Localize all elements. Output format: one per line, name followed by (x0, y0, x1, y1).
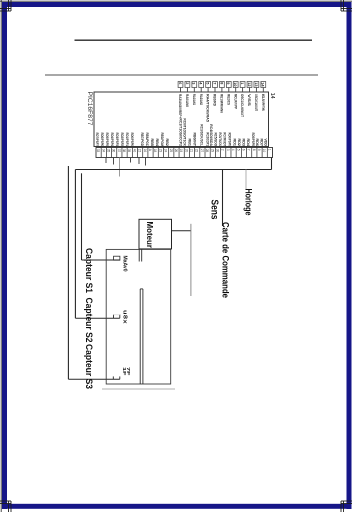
svg-text:RD7/PSP7: RD7/PSP7 (95, 133, 99, 147)
svg-text:10: 10 (262, 149, 266, 153)
motor box (139, 219, 172, 249)
svg-text:12: 12 (247, 82, 251, 86)
svg-text:Moteur: Moteur (145, 222, 155, 249)
svg-text:18: 18 (153, 149, 157, 153)
svg-text:40: 40 (132, 149, 136, 153)
svg-text:26: 26 (174, 149, 178, 153)
svg-text:22: 22 (195, 149, 199, 153)
svg-text:RD4: RD4 (246, 139, 250, 147)
svg-text:RC7/RX/DT: RC7/RX/DT (223, 133, 227, 147)
microcontroller U1 body (94, 92, 269, 147)
svg-text:1: 1 (240, 82, 244, 84)
wire S3 horizontal (68, 378, 119, 380)
top pin 2 (RA0/AN0) (185, 82, 190, 108)
sensor S2 input box (open) (113, 315, 115, 319)
header rule black (75, 39, 313, 41)
svg-text:27: 27 (200, 149, 204, 153)
top pin 7 (RE0/RD) (212, 82, 217, 107)
svg-text:23: 23 (158, 149, 162, 153)
header rule gray (45, 74, 318, 76)
top pin 1 (OSC1/CLKIN/XT) (240, 82, 245, 118)
svg-text:7: 7 (212, 82, 216, 84)
svg-text:RD3: RD3 (242, 139, 246, 147)
sensor S1 input box (114, 256, 120, 260)
top pin 8 (RE1/WR/AN6) (219, 82, 224, 114)
svg-text:36: 36 (112, 149, 116, 153)
corner mark bottom-left (8, 501, 10, 512)
corner mark top-right (340, 0, 342, 11)
pin stub wire (gray) (119, 158, 121, 177)
svg-text:PIC16F877: PIC16F877 (86, 92, 93, 127)
svg-text:RD5/PSP5: RD5/PSP5 (105, 133, 109, 147)
thin black outer frame top (0, 0, 352, 2)
svg-text:Sens: Sens (209, 200, 220, 220)
wire S3 vertical (67, 166, 69, 379)
pin stub wire (130, 158, 132, 163)
wire motor to bracket (172, 230, 191, 232)
svg-text:RA1/AN1: RA1/AN1 (192, 94, 196, 105)
svg-text:24: 24 (164, 149, 168, 153)
svg-text:RC4/SDI/SDA: RC4/SDI/SDA (209, 124, 213, 146)
motor shaft double line upper (138, 249, 140, 261)
svg-text:RC3/SCK/SCL: RC3/SCK/SCL (200, 124, 204, 146)
svg-text:19: 19 (179, 149, 183, 153)
blue border top (2, 2, 350, 7)
svg-text:33: 33 (96, 149, 100, 153)
svg-text:29: 29 (210, 149, 214, 153)
svg-text:25: 25 (169, 149, 173, 153)
svg-text:RD6/PSP6: RD6/PSP6 (100, 133, 104, 147)
svg-text:RD7: RD7 (260, 139, 264, 147)
svg-text:RA3/AN3/VREF+: RA3/AN3/VREF+ (178, 94, 182, 118)
bracket line right of motor (190, 224, 192, 296)
wire S1 horizontal (82, 259, 120, 261)
top pin 3 (RA1/AN1) (192, 82, 197, 106)
svg-text:VSS: VSS (247, 94, 251, 107)
svg-text:RD4/PSP4: RD4/PSP4 (110, 133, 114, 147)
svg-text:RB0/INT: RB0/INT (193, 133, 197, 147)
svg-text:RC6/TX/CK: RC6/TX/CK (218, 133, 222, 147)
wire Sens (222, 170, 224, 227)
svg-text:RB6/PGC: RB6/PGC (145, 133, 149, 147)
svg-text:MCLR/VPP: MCLR/VPP (233, 94, 237, 109)
corner mark top-left (8, 0, 10, 11)
wire S2 vertical (74, 170, 76, 319)
svg-text:RA2/AN2: RA2/AN2 (199, 94, 203, 105)
svg-text:RD3/PSP3: RD3/PSP3 (115, 133, 119, 147)
blue border left (2, 2, 7, 509)
svg-text:RE1/WR/AN6: RE1/WR/AN6 (220, 94, 224, 113)
sensor S3 input box (open) (112, 376, 114, 379)
svg-text:13: 13 (254, 82, 258, 86)
svg-text:Horloge: Horloge (244, 189, 254, 216)
svg-text:RB3/PGM: RB3/PGM (160, 133, 164, 147)
svg-text:RD1: RD1 (233, 139, 237, 147)
top pin 5 (RA4/T0CKI/RA5) (206, 82, 211, 123)
pin stub wire (138, 158, 140, 165)
command board outline (106, 249, 171, 384)
svg-text:RD0/PSP0: RD0/PSP0 (130, 133, 134, 147)
ghost bottom line (102, 388, 175, 390)
pin number strip (96, 148, 273, 158)
svg-text:30: 30 (215, 149, 219, 153)
svg-text:14: 14 (269, 93, 275, 99)
svg-text:RB7/PGD: RB7/PGD (140, 133, 144, 147)
thin black outer frame left (0, 0, 2, 512)
svg-text:VDD: VDD (264, 139, 268, 147)
svg-text:RD0/PSP0: RD0/PSP0 (228, 133, 232, 147)
svg-text:20: 20 (184, 149, 188, 153)
svg-text:RE2/CS: RE2/CS (226, 94, 230, 106)
svg-text:28: 28 (205, 149, 209, 153)
svg-text:Capteur S3: Capteur S3 (84, 344, 94, 389)
svg-text:MaAv0: MaAv0 (121, 256, 127, 272)
pin stub wire (105, 158, 107, 164)
svg-text:RA4/T0CKI/RA5: RA4/T0CKI/RA5 (206, 94, 210, 122)
wire Horloge (faint) (245, 170, 247, 190)
svg-text:RB4: RB4 (155, 139, 159, 147)
bus wire horizontal (75, 169, 271, 171)
svg-text:RB1: RB1 (188, 139, 192, 147)
svg-text:Capteur S2: Capteur S2 (84, 298, 94, 343)
svg-text:RD2: RD2 (237, 139, 241, 147)
svg-text:6: 6 (178, 82, 182, 84)
top pin 6 (RA3/AN3/VREF+) (178, 82, 183, 119)
blue border bottom (2, 504, 352, 509)
svg-text:RD1/PSP1: RD1/PSP1 (125, 133, 129, 147)
svg-text:35: 35 (106, 149, 110, 153)
svg-text:5: 5 (206, 82, 210, 84)
svg-text:37: 37 (117, 149, 121, 153)
svg-text:RD2/PSP2: RD2/PSP2 (120, 133, 124, 147)
svg-text:u8x: u8x (121, 310, 127, 324)
svg-text:10: 10 (233, 82, 237, 86)
top pin 12 (VSS) (247, 82, 252, 107)
svg-text:RC5/SDO: RC5/SDO (214, 133, 218, 147)
svg-text:RD6: RD6 (255, 139, 259, 147)
svg-text:38: 38 (122, 149, 126, 153)
wire S1 vertical (81, 173, 83, 260)
svg-text:2: 2 (185, 82, 189, 84)
shaft double line lower (139, 289, 141, 384)
top pin 14 (MCLR/VPP/THV) (261, 82, 266, 112)
top pin 10 (MCLR/VPP) (233, 82, 238, 110)
blue border right (347, 2, 352, 509)
wire S2 horizontal (75, 317, 119, 319)
svg-text:RC1/T1OSI/CCP2: RC1/T1OSI/CCP2 (178, 118, 182, 146)
svg-text:21: 21 (190, 149, 194, 153)
top pin 13 (OSC2/CLKOUT) (254, 82, 259, 112)
pin stub wire (113, 158, 115, 165)
svg-text:RC2/CCP1: RC2/CCP1 (205, 133, 209, 147)
svg-text:MCLR/VPP/THV: MCLR/VPP/THV (261, 94, 265, 111)
svg-text:9: 9 (226, 82, 230, 84)
svg-text:OSC2/CLKOUT: OSC2/CLKOUT (254, 94, 258, 112)
svg-text:RB2: RB2 (165, 139, 169, 147)
top pin 4 (RA2/AN2) (199, 82, 204, 106)
svg-text:15: 15 (138, 149, 142, 153)
svg-text:RB5: RB5 (150, 139, 154, 147)
svg-text:39: 39 (127, 149, 131, 153)
svg-text:OSC1/CLKIN/XT: OSC1/CLKIN/XT (240, 94, 244, 118)
svg-text:RD5/PSP5: RD5/PSP5 (251, 133, 255, 147)
svg-text:RA0/AN0: RA0/AN0 (185, 94, 189, 107)
svg-text:16: 16 (143, 149, 147, 153)
wire up to strip right (271, 158, 273, 170)
svg-text:3: 3 (192, 82, 196, 84)
svg-text:Capteur S1: Capteur S1 (84, 248, 94, 293)
svg-text:8: 8 (219, 82, 223, 84)
svg-text:RE0/RD: RE0/RD (213, 94, 217, 106)
svg-text:RC0/T1OSO/T1CK: RC0/T1OSO/T1CK (182, 118, 186, 146)
svg-text:Carte de Commande: Carte de Commande (221, 222, 231, 298)
svg-text:7F: 7F (126, 367, 131, 376)
pin stub wire (145, 158, 147, 166)
svg-text:34: 34 (101, 149, 105, 153)
corner mark bottom-right (340, 501, 342, 512)
top pin 9 (RE2/CS) (226, 82, 231, 106)
